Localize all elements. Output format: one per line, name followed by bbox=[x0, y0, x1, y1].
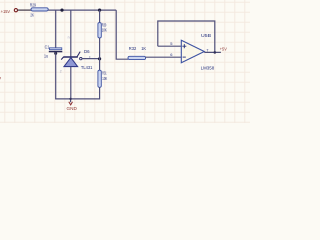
svg-text:R31: R31 bbox=[102, 70, 107, 75]
svg-text:GND: GND bbox=[67, 106, 77, 111]
svg-text:C1: C1 bbox=[45, 45, 50, 50]
plus mark bbox=[182, 44, 186, 48]
wire R32 to pin6 bbox=[146, 56, 182, 58]
svg-text:LM358: LM358 bbox=[201, 66, 215, 71]
wire right column bbox=[116, 10, 128, 59]
wire terminal to R29 bbox=[18, 9, 31, 11]
pin mark bbox=[89, 56, 91, 58]
wire R31 bottom bbox=[99, 87, 101, 99]
svg-text:R32: R32 bbox=[129, 46, 137, 51]
svg-text:+15V: +15V bbox=[1, 9, 11, 14]
terminal +15V bbox=[14, 9, 17, 12]
junction dot J1 on cathode net bbox=[60, 9, 63, 12]
wire bottom net bbox=[55, 98, 100, 100]
svg-text:n: n bbox=[68, 36, 70, 40]
svg-text:D6: D6 bbox=[84, 49, 90, 54]
wire TL431 anode bbox=[70, 67, 72, 99]
resistor R29 bbox=[31, 8, 48, 11]
minus mark bbox=[183, 56, 186, 58]
svg-text:10K: 10K bbox=[102, 28, 107, 33]
svg-text:1K: 1K bbox=[141, 46, 147, 51]
resistor R30 bbox=[98, 23, 101, 38]
svg-text:TL431: TL431 bbox=[81, 65, 93, 70]
svg-text:+5V: +5V bbox=[220, 47, 228, 52]
op-amp U5B bbox=[181, 40, 204, 63]
resistor R32 bbox=[128, 56, 146, 59]
wire between R30 R31 bbox=[99, 38, 101, 70]
wire C1 branch bbox=[55, 10, 57, 48]
svg-text:2: 2 bbox=[60, 70, 62, 74]
svg-text:1u: 1u bbox=[44, 54, 48, 59]
capacitor C1 bbox=[49, 48, 63, 55]
svg-text:R29: R29 bbox=[30, 3, 36, 8]
wire REF bbox=[82, 58, 100, 60]
wire C1 bottom bbox=[55, 52, 57, 99]
svg-text:2K: 2K bbox=[30, 13, 34, 18]
wire R30 column top bbox=[99, 10, 101, 23]
svg-text:10K: 10K bbox=[102, 76, 107, 81]
TL431 D6 bbox=[61, 52, 82, 67]
feedback loop wire bbox=[158, 21, 215, 52]
wire output bbox=[204, 51, 221, 53]
wire top net bbox=[48, 9, 116, 11]
junction dot J2 R30 tap bbox=[98, 9, 101, 12]
wire TL431 cathode bbox=[70, 10, 72, 57]
svg-text:U5B: U5B bbox=[201, 33, 211, 38]
ground symbol bbox=[67, 98, 77, 111]
resistor R31 bbox=[98, 70, 101, 87]
wire pin5 bbox=[158, 45, 182, 47]
junction dot output bbox=[214, 51, 217, 54]
junction dot J3 REF node bbox=[98, 57, 101, 60]
